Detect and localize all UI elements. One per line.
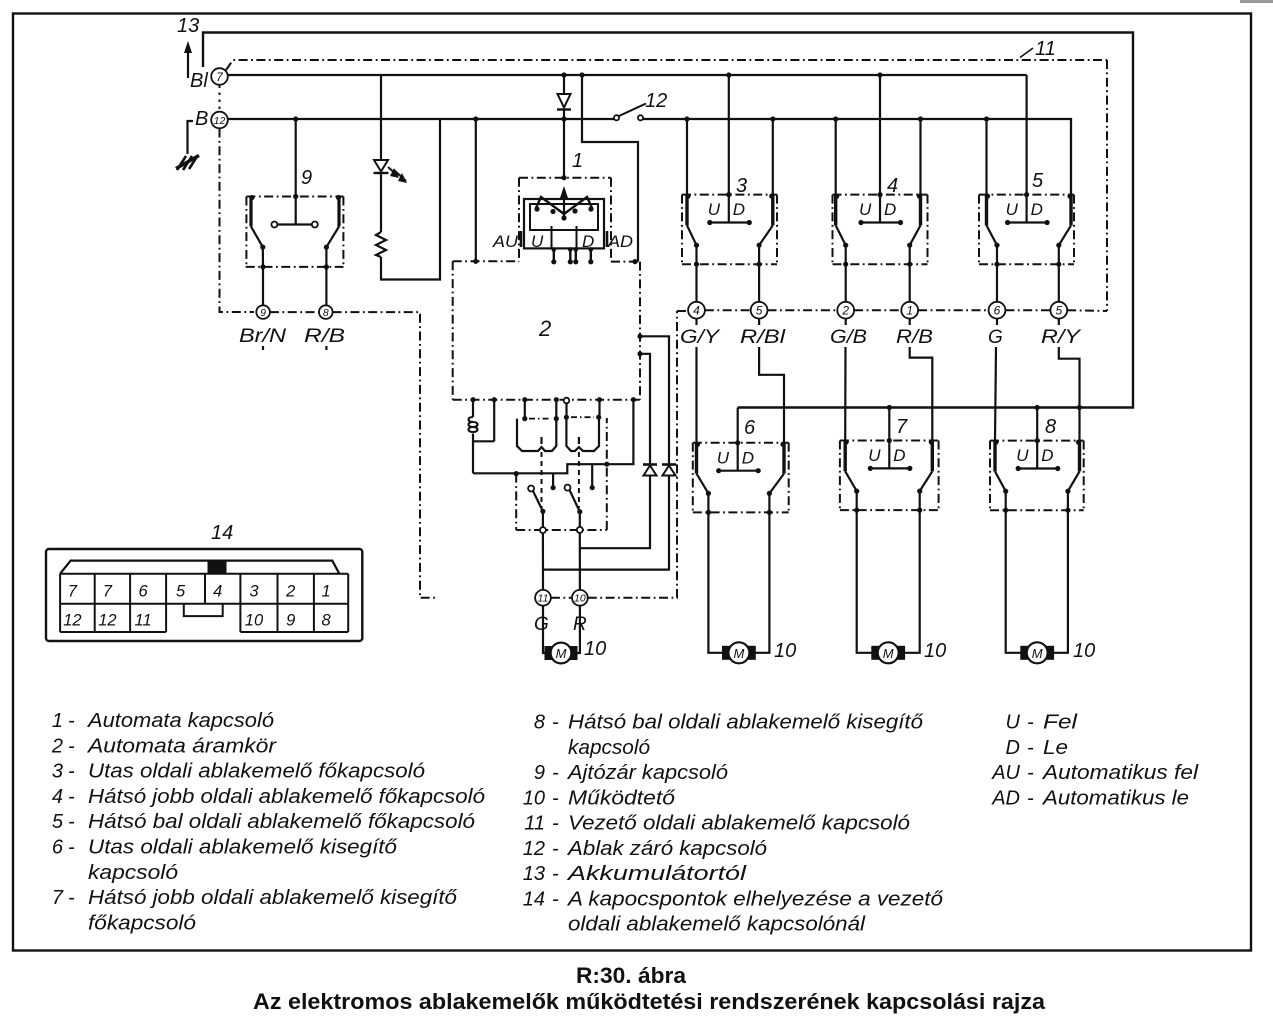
scan artifact top-right bbox=[1240, 0, 1273, 3]
svg-text:Utas oldali ablakemelő főkapcs: Utas oldali ablakemelő főkapcsoló bbox=[88, 761, 425, 783]
svg-text:kapcsoló: kapcsoló bbox=[568, 737, 650, 759]
wire feed to switch 8 center bbox=[1036, 408, 1038, 441]
svg-text:-: - bbox=[68, 786, 75, 808]
svg-text:oldali ablakemelő kapcsolónál: oldali ablakemelő kapcsolónál bbox=[568, 914, 866, 936]
switch 12 window lock contacts bbox=[614, 104, 646, 121]
svg-text:6: 6 bbox=[994, 304, 1001, 318]
wire coil bottom join bbox=[473, 434, 494, 442]
svg-text:5: 5 bbox=[756, 304, 763, 318]
svg-text:10: 10 bbox=[574, 593, 586, 605]
svg-text:Le: Le bbox=[1043, 737, 1068, 759]
svg-text:-: - bbox=[1027, 712, 1034, 734]
wire R/Y to switch 8 right bbox=[1059, 319, 1080, 441]
relay arm 1 bbox=[528, 486, 546, 534]
wire 13 top bus with right drop and lower feed line bbox=[203, 33, 1133, 408]
relay arm 2 bbox=[565, 485, 583, 533]
connector chain dash-dot pins 11-10 bbox=[551, 311, 677, 598]
connector 14 pin numbers row 1 bbox=[68, 583, 331, 601]
svg-text:7: 7 bbox=[68, 583, 78, 601]
svg-text:-: - bbox=[1027, 737, 1034, 759]
wire feed to switch 7 center bbox=[888, 408, 890, 441]
switch 9 door lock switch bbox=[246, 194, 344, 270]
svg-text:R/Bl: R/Bl bbox=[740, 327, 786, 348]
svg-text:Vezető oldali ablakemelő kapcs: Vezető oldali ablakemelő kapcsoló bbox=[568, 813, 910, 835]
stub below Br/N bbox=[262, 346, 264, 353]
svg-text:D: D bbox=[1006, 737, 1020, 759]
svg-text:U: U bbox=[1016, 446, 1029, 465]
svg-text:R/B: R/B bbox=[896, 327, 933, 348]
wire G/B to switch 7 left bbox=[844, 319, 847, 441]
svg-text:6: 6 bbox=[744, 417, 756, 439]
wire switch 9 to pin 9 bbox=[262, 267, 264, 305]
svg-text:D: D bbox=[1041, 446, 1053, 465]
switch 6 U D labels bbox=[717, 448, 754, 467]
svg-text:AU: AU bbox=[991, 762, 1020, 784]
switch arm box dash-dot bbox=[516, 418, 607, 530]
svg-text:7: 7 bbox=[103, 583, 113, 601]
svg-text:-: - bbox=[552, 787, 559, 809]
wire switch 4 to pin 2 bbox=[845, 264, 847, 302]
pin circle 6 bbox=[989, 302, 1006, 319]
svg-text:10: 10 bbox=[584, 638, 606, 660]
svg-text:R:30. ábra: R:30. ábra bbox=[576, 963, 687, 988]
svg-text:G/Y: G/Y bbox=[680, 327, 721, 348]
wire diode D1 to switch 1 bbox=[563, 110, 565, 178]
stub below R/B bbox=[325, 346, 327, 353]
svg-text:10: 10 bbox=[1073, 640, 1095, 662]
wire switch 3 to pin 5 bbox=[758, 264, 760, 302]
svg-text:7: 7 bbox=[896, 416, 908, 438]
connector 14 pin numbers row 2 bbox=[63, 612, 331, 630]
relay arm 1 NO contact bbox=[551, 473, 556, 490]
svg-text:9: 9 bbox=[260, 307, 266, 319]
svg-text:U: U bbox=[868, 446, 881, 465]
svg-text:12: 12 bbox=[523, 838, 545, 860]
wire net B (line from pin 12) bbox=[228, 118, 616, 120]
svg-text:Br/N: Br/N bbox=[239, 326, 286, 347]
svg-text:U: U bbox=[717, 448, 730, 467]
wire Bl drop to switch 3 center bbox=[728, 75, 730, 195]
svg-text:-: - bbox=[552, 762, 559, 784]
svg-text:kapcsoló: kapcsoló bbox=[88, 862, 178, 884]
dash-dot from pin 12 down to connector chain bbox=[220, 129, 255, 313]
svg-text:-: - bbox=[68, 710, 75, 732]
wire switch 5 to pin 6 bbox=[996, 264, 998, 302]
pin circle 11 bbox=[535, 590, 551, 606]
svg-text:12: 12 bbox=[645, 90, 667, 112]
switch 4 U D labels bbox=[859, 200, 896, 219]
svg-text:9: 9 bbox=[286, 612, 295, 630]
svg-text:G: G bbox=[988, 327, 1003, 348]
svg-text:D: D bbox=[582, 232, 594, 251]
svg-text:R/B: R/B bbox=[304, 326, 345, 347]
svg-text:D: D bbox=[742, 448, 754, 467]
svg-text:-: - bbox=[552, 888, 559, 910]
wire B drop to switch 5 left bbox=[985, 119, 987, 195]
svg-text:G/B: G/B bbox=[830, 327, 867, 348]
block 2 automatic circuit box bbox=[453, 259, 640, 400]
svg-text:13: 13 bbox=[177, 15, 199, 37]
wire net B continuation after switch 12 bbox=[643, 119, 1071, 195]
wire switch 5 to pin 5 bbox=[1058, 264, 1060, 302]
svg-text:14: 14 bbox=[211, 522, 233, 544]
diode D3 bbox=[643, 465, 657, 476]
svg-text:D: D bbox=[884, 200, 896, 219]
svg-text:Bl: Bl bbox=[190, 70, 208, 92]
svg-text:M: M bbox=[556, 646, 567, 661]
wire net 11 right drop dash-dot bbox=[1106, 60, 1108, 311]
svg-text:1: 1 bbox=[52, 710, 63, 732]
wire switch 7 to motor M3 right bbox=[901, 510, 920, 653]
wire B drop to switch 4 left bbox=[835, 119, 837, 195]
wire switch 6 to motor M2 left bbox=[708, 512, 726, 652]
svg-text:11: 11 bbox=[135, 612, 152, 630]
wire G to switch 8 left bbox=[995, 319, 997, 441]
switch 8 window switch bbox=[990, 438, 1084, 513]
mechanical link dash K1 bbox=[541, 452, 543, 508]
svg-text:főkapcsoló: főkapcsoló bbox=[88, 912, 196, 934]
switch 5 U D labels bbox=[1006, 200, 1043, 219]
wire switch 6 to motor M2 right bbox=[751, 512, 769, 652]
wire R to motor M1 bbox=[573, 606, 580, 653]
diode D1 bbox=[557, 94, 571, 110]
svg-text:8: 8 bbox=[323, 307, 329, 319]
pin circle 10 bbox=[572, 590, 588, 606]
switch 6 window switch bbox=[693, 440, 789, 515]
svg-text:10: 10 bbox=[774, 640, 796, 662]
wire switch 7 to motor M3 left bbox=[857, 510, 876, 653]
svg-text:11: 11 bbox=[524, 813, 545, 835]
wire net B drop to block 2 top-left bbox=[475, 119, 477, 261]
svg-text:Automata kapcsoló: Automata kapcsoló bbox=[87, 710, 274, 732]
wire arm2 to pin 10 (R) bbox=[579, 533, 581, 590]
wire block2 to diode D3 bbox=[637, 351, 650, 464]
svg-text:Ablak záró kapcsoló: Ablak záró kapcsoló bbox=[567, 838, 767, 860]
switch 3 U D labels bbox=[708, 200, 745, 219]
wire LED branch from Bl line bbox=[380, 75, 382, 160]
relay arm 2 NO contact bbox=[590, 464, 595, 490]
relay coil L1 pin wires bbox=[470, 397, 496, 441]
arrow to battery (13) bbox=[187, 50, 189, 78]
switch 3 window switch bbox=[682, 192, 777, 267]
svg-text:1: 1 bbox=[321, 583, 330, 601]
svg-text:U: U bbox=[1006, 712, 1021, 734]
svg-text:Automata áramkör: Automata áramkör bbox=[87, 735, 278, 757]
svg-text:B: B bbox=[195, 108, 208, 130]
pin circle 2 bbox=[837, 302, 854, 319]
svg-text:Utas oldali ablakemelő kisegít: Utas oldali ablakemelő kisegítő bbox=[88, 837, 398, 859]
leader line for 11 bbox=[1020, 48, 1033, 58]
connector 14 cell grid bbox=[60, 574, 348, 632]
svg-text:M: M bbox=[733, 646, 744, 661]
wire diode D3 to R output bbox=[580, 476, 650, 549]
svg-text:-: - bbox=[1027, 762, 1034, 784]
pin circle 5 right bbox=[1050, 302, 1067, 319]
svg-text:6: 6 bbox=[52, 837, 64, 859]
legend column 2 bbox=[523, 712, 944, 936]
wire Bl corner to switch 5 center bbox=[1025, 75, 1027, 195]
svg-text:5: 5 bbox=[176, 583, 186, 601]
svg-text:10: 10 bbox=[245, 612, 264, 630]
wire switch 9 to pin 8 bbox=[325, 267, 327, 305]
wire block2 to diode D4 bbox=[637, 334, 669, 465]
svg-text:12: 12 bbox=[63, 612, 81, 630]
wire switch 3 to pin 4 bbox=[695, 264, 697, 302]
svg-text:AD: AD bbox=[607, 232, 633, 251]
svg-text:2: 2 bbox=[285, 583, 295, 601]
pin circle 5 bbox=[751, 302, 768, 319]
wire switch 8 to motor M4 right bbox=[1050, 510, 1068, 653]
motor M4 bbox=[1021, 642, 1054, 663]
svg-text:U: U bbox=[859, 200, 872, 219]
relay cup K2 bbox=[564, 415, 602, 451]
svg-text:4: 4 bbox=[213, 583, 222, 601]
svg-text:R/Y: R/Y bbox=[1041, 327, 1082, 348]
contact rail wire bbox=[473, 400, 633, 474]
svg-text:5: 5 bbox=[52, 811, 64, 833]
relay cup K1 pins bbox=[522, 397, 559, 419]
svg-text:-: - bbox=[68, 761, 75, 783]
svg-text:10: 10 bbox=[523, 787, 545, 809]
wire common down to contact rail bbox=[472, 441, 474, 473]
wire B drop to switch 3 right bbox=[772, 119, 774, 195]
switch 4 window switch bbox=[833, 192, 928, 267]
svg-text:4: 4 bbox=[52, 786, 63, 808]
svg-text:AD: AD bbox=[991, 787, 1020, 809]
legend column 3 bbox=[991, 712, 1198, 810]
wire LED to resistor bbox=[380, 173, 382, 232]
svg-text:D: D bbox=[893, 446, 905, 465]
svg-text:10: 10 bbox=[924, 640, 946, 662]
svg-text:-: - bbox=[552, 813, 559, 835]
svg-text:1: 1 bbox=[906, 304, 913, 318]
svg-text:G: G bbox=[534, 614, 549, 635]
svg-text:9: 9 bbox=[301, 167, 312, 189]
svg-text:Hátsó jobb oldali ablakemelő k: Hátsó jobb oldali ablakemelő kisegítő bbox=[88, 887, 458, 909]
svg-text:Fel: Fel bbox=[1043, 712, 1078, 734]
svg-text:Az elektromos ablakemelők műkö: Az elektromos ablakemelők működtetési re… bbox=[253, 989, 1046, 1014]
pin circle 4 bbox=[688, 302, 705, 319]
switch 1 automatic switch assembly bbox=[519, 175, 611, 264]
svg-text:M: M bbox=[883, 646, 894, 661]
svg-text:-: - bbox=[68, 735, 75, 757]
svg-text:-: - bbox=[552, 863, 559, 885]
LED D2 bbox=[374, 160, 408, 183]
svg-text:-: - bbox=[1027, 787, 1034, 809]
diode D4 bbox=[662, 465, 676, 476]
wire arm1 to pin 11 (G) bbox=[542, 533, 544, 590]
svg-text:Ajtózár kapcsoló: Ajtózár kapcsoló bbox=[567, 762, 728, 784]
svg-text:13: 13 bbox=[523, 863, 545, 885]
svg-text:-: - bbox=[68, 887, 75, 909]
svg-text:-: - bbox=[552, 712, 559, 734]
pin circle 8 bbox=[319, 305, 333, 319]
motor M1 bbox=[545, 643, 577, 664]
relay cup K1 bbox=[517, 416, 559, 451]
connector chain dash-dot pin row bbox=[677, 309, 1107, 312]
svg-text:-: - bbox=[68, 811, 75, 833]
switch 5 window switch bbox=[979, 192, 1074, 267]
svg-text:Működtető: Működtető bbox=[568, 787, 676, 809]
wire from Bl line to diode D1 bbox=[563, 75, 565, 94]
legend column 1 bbox=[51, 710, 485, 934]
relay cup K2 pins bbox=[564, 397, 602, 417]
wire net Bl (line from pin 7) bbox=[228, 74, 1027, 76]
svg-text:U: U bbox=[1006, 200, 1019, 219]
svg-text:1: 1 bbox=[572, 150, 583, 172]
wire Bl drop to switch 4 center bbox=[879, 75, 881, 195]
svg-text:6: 6 bbox=[139, 583, 149, 601]
wire net B drop to switch 9 bbox=[295, 119, 297, 197]
svg-text:11: 11 bbox=[1035, 38, 1056, 60]
ground hook wire bbox=[188, 121, 194, 154]
motor M3 bbox=[872, 642, 905, 663]
link pin7 to pin12 dotted bbox=[219, 86, 221, 112]
svg-text:AU: AU bbox=[492, 232, 519, 251]
svg-text:5: 5 bbox=[1032, 170, 1044, 192]
wire R/Bl to switch 6 right bbox=[759, 319, 784, 443]
svg-text:Hátsó bal oldali ablakemelő ki: Hátsó bal oldali ablakemelő kisegítő bbox=[568, 712, 924, 734]
motor M2 bbox=[723, 642, 756, 663]
svg-text:8: 8 bbox=[534, 712, 545, 734]
svg-text:2: 2 bbox=[51, 735, 63, 757]
wire switch 8 to motor M4 left bbox=[1006, 510, 1025, 653]
svg-text:-: - bbox=[68, 837, 75, 859]
pin circle 9 bbox=[256, 305, 270, 319]
ground symbol bbox=[176, 155, 199, 170]
wire feed line corners to switch 6 center bbox=[737, 408, 739, 443]
resistor R1 bbox=[376, 232, 386, 257]
svg-text:8: 8 bbox=[1045, 416, 1056, 438]
wire net 11 dash-dot top bbox=[226, 60, 1107, 70]
svg-text:8: 8 bbox=[321, 612, 331, 630]
svg-text:U: U bbox=[531, 232, 544, 251]
wire diode D4 to G output bbox=[543, 476, 669, 570]
svg-text:2: 2 bbox=[841, 304, 849, 318]
svg-text:3: 3 bbox=[249, 583, 259, 601]
svg-text:A kapocspontok elhelyezése a v: A kapocspontok elhelyezése a vezető bbox=[567, 888, 944, 910]
svg-text:3: 3 bbox=[52, 761, 63, 783]
wire resistor bottom loop to net B bbox=[381, 119, 440, 280]
svg-text:Hátsó bal oldali ablakemelő fő: Hátsó bal oldali ablakemelő főkapcsoló bbox=[88, 811, 475, 833]
svg-text:12: 12 bbox=[98, 612, 116, 630]
svg-text:D: D bbox=[733, 200, 745, 219]
switch 7 U D labels bbox=[868, 446, 905, 465]
svg-text:U: U bbox=[708, 200, 721, 219]
wire B drop to switch 4 right bbox=[919, 119, 921, 195]
svg-text:Akkumulátortól: Akkumulátortól bbox=[567, 863, 747, 885]
pin circle 1 bbox=[901, 302, 918, 319]
wire G/Y to switch 6 left bbox=[695, 319, 697, 443]
svg-text:12: 12 bbox=[214, 115, 226, 127]
wire B drop to switch 3 left bbox=[686, 119, 688, 195]
switch 7 window switch bbox=[840, 438, 939, 513]
svg-text:7: 7 bbox=[52, 887, 64, 909]
svg-text:4: 4 bbox=[693, 304, 700, 318]
svg-text:-: - bbox=[552, 838, 559, 860]
wire switch 4 to pin 1 bbox=[909, 264, 911, 302]
svg-text:9: 9 bbox=[534, 762, 545, 784]
wire R/B to switch 7 right bbox=[910, 319, 933, 441]
svg-text:2: 2 bbox=[538, 316, 551, 341]
mechanical link dash K2 bbox=[578, 452, 580, 508]
svg-text:Hátsó jobb oldali ablakemelő f: Hátsó jobb oldali ablakemelő főkapcsoló bbox=[88, 786, 485, 808]
switch 8 U D labels bbox=[1016, 446, 1053, 465]
svg-text:Automatikus le: Automatikus le bbox=[1042, 787, 1189, 809]
inductor coil L1 zigzag bbox=[469, 417, 478, 432]
svg-text:D: D bbox=[1031, 200, 1043, 219]
svg-text:M: M bbox=[1032, 646, 1043, 661]
connector chain dash-dot pins 9-8 to corner bbox=[270, 312, 435, 598]
svg-text:Automatikus fel: Automatikus fel bbox=[1042, 762, 1199, 784]
svg-text:5: 5 bbox=[1055, 304, 1062, 318]
wire G to motor M1 bbox=[543, 606, 549, 653]
svg-text:11: 11 bbox=[538, 593, 549, 605]
wire Bl drop to block 2 right side bbox=[582, 75, 638, 262]
svg-text:14: 14 bbox=[523, 888, 545, 910]
connector 14 housing bbox=[46, 549, 362, 641]
